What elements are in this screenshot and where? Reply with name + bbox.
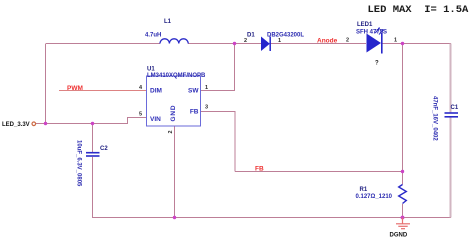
svg-text:Anode: Anode bbox=[317, 38, 338, 45]
svg-text:3: 3 bbox=[205, 105, 208, 111]
svg-text:GND: GND bbox=[170, 105, 177, 122]
svg-text:C2: C2 bbox=[100, 146, 108, 152]
svg-text:LED MAX I= 1.5A: LED MAX I= 1.5A bbox=[368, 4, 470, 16]
svg-text:FB: FB bbox=[190, 109, 199, 116]
svg-text:LED_3.3V: LED_3.3V bbox=[2, 122, 30, 128]
svg-text:1: 1 bbox=[278, 38, 281, 44]
svg-text:DB2G43200L: DB2G43200L bbox=[267, 33, 304, 39]
svg-text:SFH 4775S: SFH 4775S bbox=[356, 30, 387, 36]
svg-text:U1: U1 bbox=[147, 67, 155, 73]
svg-text:LM3410XQMF/NOPB: LM3410XQMF/NOPB bbox=[147, 73, 206, 79]
svg-text:0.127Ω_1210: 0.127Ω_1210 bbox=[356, 194, 393, 200]
svg-text:2: 2 bbox=[168, 130, 174, 133]
svg-text:PWM: PWM bbox=[67, 85, 83, 92]
svg-text:R1: R1 bbox=[360, 187, 368, 193]
svg-text:FB: FB bbox=[255, 166, 264, 173]
svg-text:LED1: LED1 bbox=[357, 22, 373, 28]
svg-text:VIN: VIN bbox=[150, 116, 161, 123]
svg-text:D1: D1 bbox=[247, 33, 255, 39]
svg-text:2: 2 bbox=[346, 38, 349, 44]
svg-text:DIM: DIM bbox=[150, 88, 162, 95]
svg-text:47nF_16V_0402: 47nF_16V_0402 bbox=[432, 96, 438, 141]
svg-text:DGND: DGND bbox=[390, 233, 408, 239]
svg-text:SW: SW bbox=[188, 88, 199, 95]
svg-text:C1: C1 bbox=[451, 105, 459, 111]
svg-text:?: ? bbox=[375, 61, 379, 67]
svg-text:5: 5 bbox=[139, 112, 142, 118]
svg-text:4.7uH: 4.7uH bbox=[145, 33, 161, 39]
svg-text:10uF_6.3V_0805: 10uF_6.3V_0805 bbox=[76, 140, 82, 187]
svg-text:2: 2 bbox=[244, 38, 247, 44]
svg-text:L1: L1 bbox=[164, 19, 172, 25]
svg-text:1: 1 bbox=[394, 38, 397, 44]
svg-text:1: 1 bbox=[205, 85, 208, 91]
